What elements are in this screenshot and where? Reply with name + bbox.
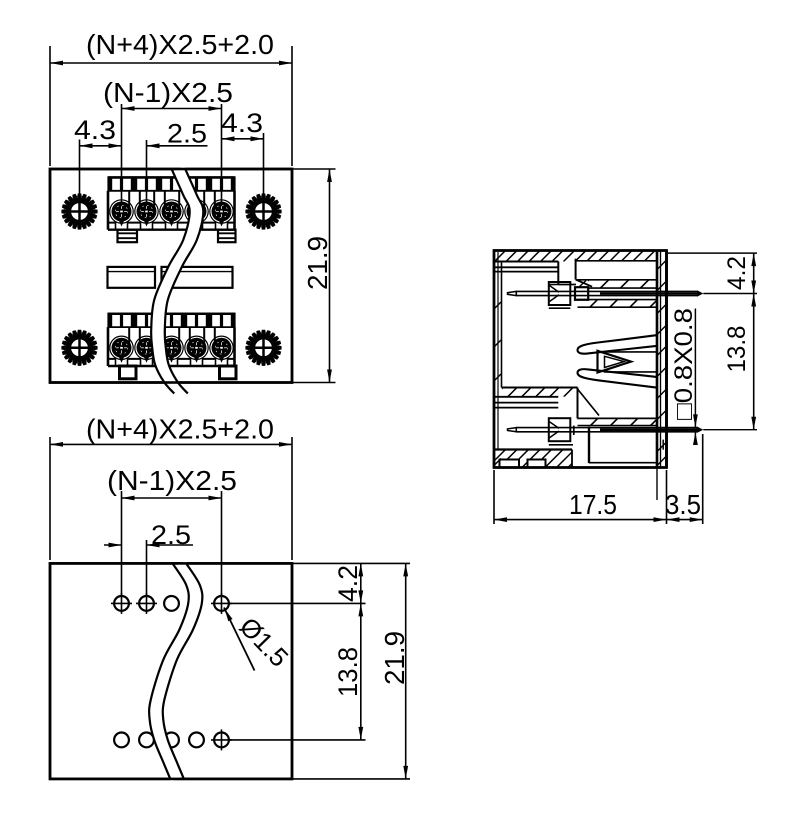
dimension 2.5 top — [146, 140, 148, 205]
hole row extension lines — [229, 602, 366, 604]
mounting screw bottom-right — [245, 330, 281, 366]
mounting screw top-left — [61, 193, 97, 229]
mounting screw bottom-left — [61, 330, 97, 366]
mounting tabs — [120, 366, 137, 379]
pcb holes bottom row — [114, 733, 129, 748]
side view pin band border lower — [578, 425, 657, 427]
pcb view outer rectangle redraw — [50, 563, 292, 779]
svg-text:(N-1)X2.5: (N-1)X2.5 — [103, 77, 233, 108]
body top castellation — [107, 176, 110, 191]
pin pedestal lines — [549, 307, 571, 309]
dimension (N-1)X2.5 pcb — [121, 491, 123, 596]
svg-text:4.3: 4.3 — [221, 108, 263, 138]
svg-text:13.8: 13.8 — [723, 326, 751, 373]
dimension (N-1)X2.5 top — [121, 104, 123, 205]
svg-text:13.8: 13.8 — [333, 647, 363, 697]
svg-text:2.5: 2.5 — [151, 520, 191, 550]
flange lines redraw — [656, 251, 658, 468]
body bottom band slots — [116, 357, 128, 365]
svg-text:(N+4)X2.5+2.0: (N+4)X2.5+2.0 — [86, 29, 274, 60]
svg-text:4.2: 4.2 — [333, 565, 363, 602]
dimension (N+4)X2.5+2.0 top — [49, 46, 51, 166]
svg-text:21.9: 21.9 — [302, 236, 333, 290]
pcb holes top row — [114, 596, 129, 611]
svg-text:3.5: 3.5 — [665, 489, 701, 520]
body top castellation — [107, 313, 110, 328]
flange pocket tick — [662, 440, 664, 450]
side view pin band borders upper — [588, 287, 656, 289]
dimension 0.8X0.8 — [694, 309, 696, 428]
side view flange lines — [656, 251, 658, 468]
svg-text:(N+4)X2.5+2.0: (N+4)X2.5+2.0 — [86, 414, 274, 445]
dimension 4.2 side — [667, 252, 758, 254]
dimension 13.8 pcb — [360, 603, 362, 740]
shroud corner ticks — [579, 281, 586, 288]
svg-text:17.5: 17.5 — [569, 489, 617, 520]
hole cross marks — [111, 602, 132, 604]
dimension 21.9 pcb — [405, 563, 407, 779]
dimension 4.2 pcb — [360, 563, 362, 603]
diameter 1.5 leader — [224, 608, 255, 671]
terminal body outline — [107, 191, 110, 230]
svg-text:4.2: 4.2 — [723, 256, 751, 290]
funnel floor line — [578, 417, 657, 419]
clamp spring upper finger — [578, 335, 657, 353]
dimension 13.8 side — [753, 294, 755, 430]
dimension 21.9 front view — [292, 168, 336, 170]
side view bottom band top line — [494, 448, 572, 450]
clamp wedge triangle — [598, 351, 632, 373]
terminal screws — [110, 336, 133, 359]
body bottom band slots — [116, 221, 128, 229]
terminal body outline — [107, 327, 110, 366]
dimension 3.5 — [702, 434, 704, 524]
svg-text:21.9: 21.9 — [379, 631, 410, 685]
side view shroud interior verticals — [557, 262, 559, 285]
left wall hatch ticks — [495, 302, 502, 309]
front view outer rectangle — [50, 169, 292, 383]
dimension 4.3 left — [79, 140, 81, 204]
dimension 4.3 right — [263, 133, 265, 203]
side view left wall inner lines — [497, 252, 499, 450]
side view outer outline — [494, 251, 667, 468]
break wave pcb view — [156, 564, 196, 779]
side view top strip bottom line — [494, 261, 558, 263]
side view bottom feet white — [500, 460, 520, 468]
break wave front view — [158, 169, 197, 394]
dimension (N+4)X2.5+2.0 pcb — [49, 437, 51, 560]
svg-text:(N-1)X2.5: (N-1)X2.5 — [107, 465, 237, 496]
bottom pin — [508, 428, 517, 432]
mounting tabs — [118, 230, 138, 243]
middle mounting plate rectangles — [108, 267, 156, 288]
clamp spring lower finger — [578, 369, 657, 387]
clamp cavity walls — [604, 351, 657, 353]
svg-text:4.3: 4.3 — [74, 115, 116, 145]
front view outer rectangle redraw — [50, 169, 292, 383]
terminal screws — [110, 200, 133, 223]
top pin — [508, 291, 517, 295]
side view front double lines upper — [494, 266, 558, 268]
dimension 17.5 — [493, 470, 495, 524]
side view lower groove lines — [495, 396, 559, 398]
svg-text:□0.8X0.8: □0.8X0.8 — [670, 308, 698, 420]
svg-text:2.5: 2.5 — [167, 119, 207, 149]
flange hatch ticks — [658, 261, 666, 270]
mounting screw top-right — [245, 193, 281, 229]
bottom pin retaining wall — [588, 427, 590, 464]
funnel floor diagonal edge — [578, 389, 600, 416]
side view lower shelf — [502, 387, 578, 389]
bottom inner ledge line — [589, 462, 656, 464]
pcb view outer rectangle — [50, 563, 292, 779]
dimension 2.5 pcb — [146, 540, 148, 596]
